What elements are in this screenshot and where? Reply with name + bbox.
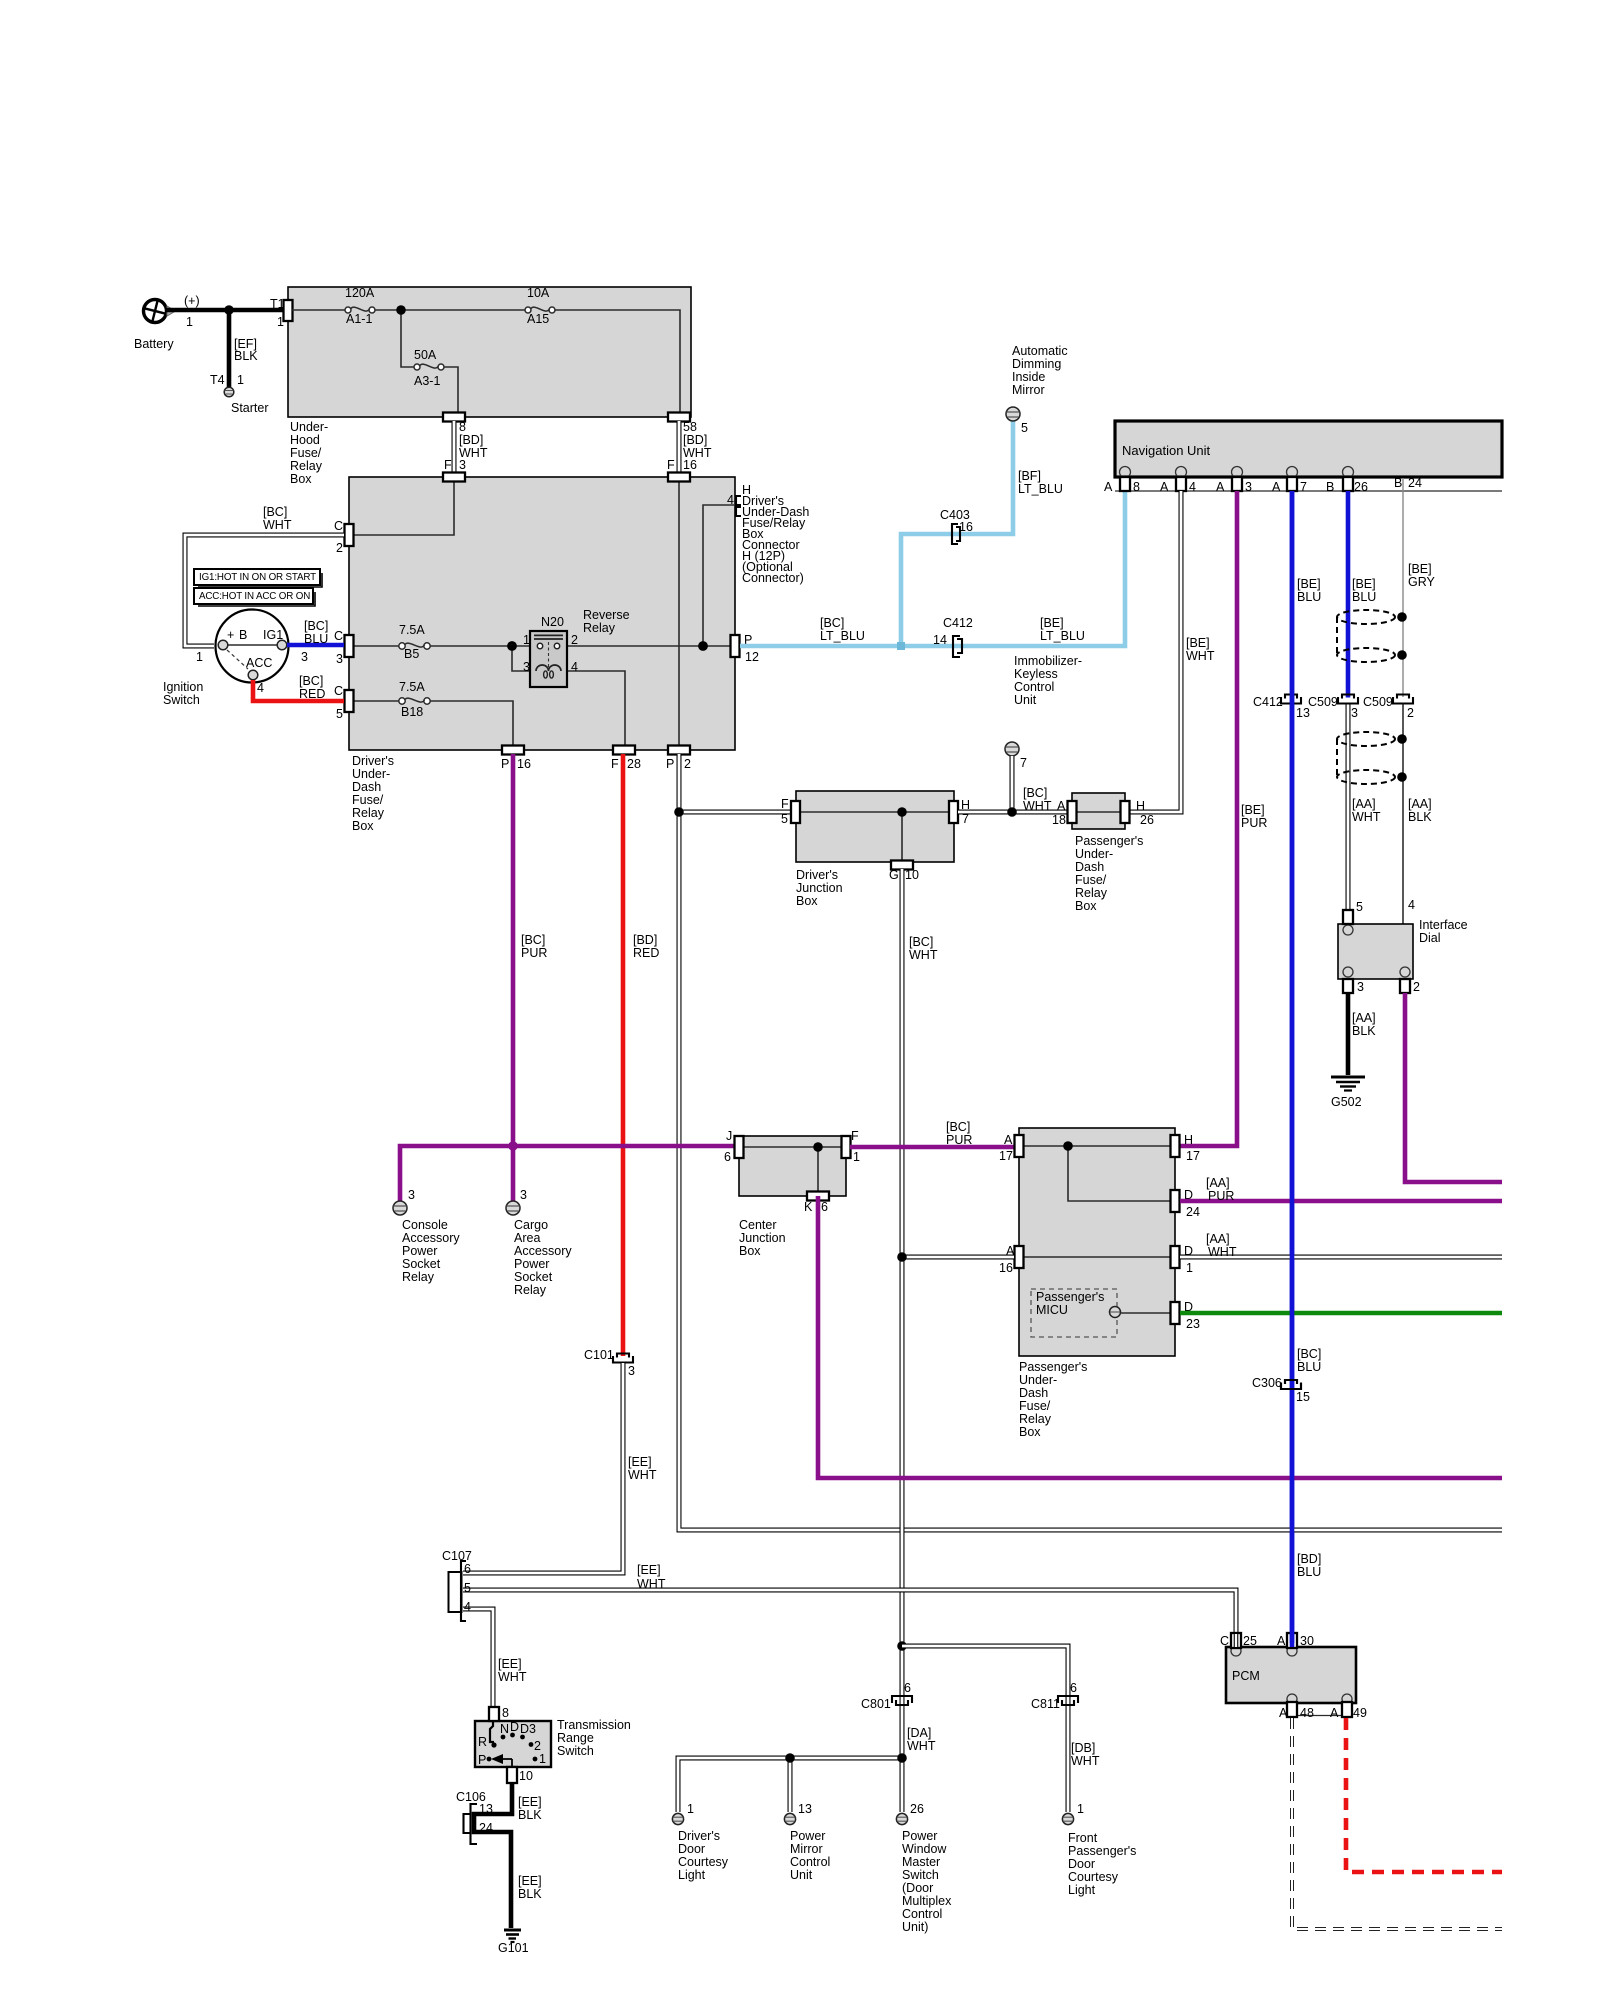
svg-text:Window: Window bbox=[902, 1842, 947, 1856]
svg-text:ACC: ACC bbox=[246, 656, 272, 670]
svg-text:Socket: Socket bbox=[514, 1270, 553, 1284]
svg-text:RED: RED bbox=[633, 946, 659, 960]
svg-text:4: 4 bbox=[1189, 480, 1196, 494]
transmission range switch bbox=[475, 1718, 631, 1767]
wire A16 white bbox=[902, 1255, 1014, 1260]
node mirror branch bbox=[785, 1753, 795, 1763]
svg-text:J: J bbox=[726, 1129, 732, 1143]
wire BC RED ignition to C5 bbox=[253, 680, 344, 701]
svg-text:120A: 120A bbox=[345, 286, 375, 300]
svg-text:26: 26 bbox=[1354, 480, 1368, 494]
svg-text:A1-1: A1-1 bbox=[346, 312, 372, 326]
svg-text:4: 4 bbox=[571, 660, 578, 674]
svg-text:6: 6 bbox=[724, 1150, 731, 1164]
svg-text:Courtesy: Courtesy bbox=[1068, 1870, 1119, 1884]
fuse A15 10A bbox=[525, 286, 555, 326]
svg-text:R: R bbox=[478, 1735, 487, 1749]
dial terminal 3 bbox=[1343, 979, 1353, 993]
terminal J6 bbox=[735, 1136, 744, 1158]
wire F1 to A17 purple bbox=[850, 1145, 1019, 1150]
svg-text:B5: B5 bbox=[404, 647, 419, 661]
svg-text:P: P bbox=[666, 757, 674, 771]
svg-text:A: A bbox=[1057, 799, 1066, 813]
wire to starter bbox=[227, 310, 232, 387]
svg-text:[BC]: [BC] bbox=[304, 619, 328, 633]
svg-text:B: B bbox=[1326, 480, 1334, 494]
svg-text:Box: Box bbox=[352, 819, 374, 833]
terminal C2 bbox=[345, 524, 354, 546]
svg-text:F: F bbox=[667, 458, 675, 472]
terminal C5 bbox=[345, 690, 354, 712]
svg-text:BLU: BLU bbox=[1352, 590, 1376, 604]
svg-text:F: F bbox=[851, 1129, 859, 1143]
svg-text:BLK: BLK bbox=[518, 1808, 542, 1822]
dial terminal 5 bbox=[1343, 910, 1353, 924]
connector C306 15 bbox=[1252, 1376, 1310, 1404]
svg-text:BLK: BLK bbox=[234, 349, 258, 363]
terminal C3 bbox=[345, 635, 354, 657]
svg-text:A: A bbox=[1004, 1133, 1013, 1147]
svg-text:IG1:HOT IN ON OR START: IG1:HOT IN ON OR START bbox=[199, 572, 316, 583]
svg-text:Ignition: Ignition bbox=[163, 680, 203, 694]
svg-text:48: 48 bbox=[1300, 1706, 1314, 1720]
svg-text:2: 2 bbox=[534, 1739, 541, 1753]
svg-text:Master: Master bbox=[902, 1855, 940, 1869]
label connector H text bbox=[742, 483, 809, 585]
svg-text:18: 18 bbox=[1052, 813, 1066, 827]
svg-text:Socket: Socket bbox=[402, 1257, 441, 1271]
wire 58 to F16 BD WHT bbox=[677, 421, 682, 473]
connector C403 16 bbox=[940, 508, 973, 544]
svg-text:[BE]: [BE] bbox=[1408, 562, 1432, 576]
svg-text:[DA]: [DA] bbox=[907, 1726, 931, 1740]
terminal P16 bbox=[502, 746, 524, 755]
svg-text:26: 26 bbox=[1140, 813, 1154, 827]
terminal D24 bbox=[1171, 1190, 1180, 1212]
svg-text:Fuse/: Fuse/ bbox=[1075, 873, 1107, 887]
svg-text:[BD]: [BD] bbox=[1297, 1552, 1321, 1566]
svg-text:[BE]: [BE] bbox=[1241, 803, 1265, 817]
svg-text:Relay: Relay bbox=[290, 459, 323, 473]
wire P2 white down and right bbox=[679, 754, 1502, 1530]
svg-text:23: 23 bbox=[1186, 1317, 1200, 1331]
terminal F3 bbox=[443, 473, 465, 482]
svg-text:Door: Door bbox=[1068, 1857, 1095, 1871]
nav terminal B26 bbox=[1343, 477, 1353, 491]
power mirror control unit pin bbox=[784, 1802, 830, 1882]
terminal H17 bbox=[1171, 1135, 1180, 1157]
terminal PCM A49 bbox=[1342, 1702, 1352, 1717]
svg-text:[BC]: [BC] bbox=[946, 1120, 970, 1134]
svg-text:F: F bbox=[444, 458, 452, 472]
wire BC LT_BLU from P12 bbox=[740, 491, 1125, 646]
svg-text:Junction: Junction bbox=[739, 1231, 786, 1245]
svg-text:[EE]: [EE] bbox=[498, 1657, 522, 1671]
svg-text:D3: D3 bbox=[520, 1722, 536, 1736]
svg-text:LT_BLU: LT_BLU bbox=[820, 629, 865, 643]
node lt blue junction bbox=[897, 642, 905, 650]
svg-text:[BE]: [BE] bbox=[1352, 577, 1376, 591]
connector C412 14 bbox=[933, 616, 973, 657]
terminal A16 bbox=[1015, 1246, 1024, 1268]
terminal TRS 10 bbox=[507, 1767, 517, 1783]
svg-text:C801: C801 bbox=[861, 1697, 891, 1711]
svg-text:1: 1 bbox=[1186, 1261, 1193, 1275]
connector C106 bbox=[456, 1790, 493, 1844]
svg-text:6: 6 bbox=[464, 1562, 471, 1576]
svg-text:Unit: Unit bbox=[1014, 693, 1037, 707]
terminal P12 bbox=[731, 635, 740, 657]
wire dial pin2 purple right bbox=[1405, 993, 1502, 1182]
svg-text:C: C bbox=[334, 629, 343, 643]
wire BE BLU B26 bbox=[1346, 491, 1351, 698]
svg-text:[BC]: [BC] bbox=[909, 935, 933, 949]
svg-text:C811: C811 bbox=[1031, 1697, 1060, 1711]
dial terminal 2 bbox=[1400, 979, 1410, 993]
svg-text:3: 3 bbox=[1357, 980, 1364, 994]
svg-text:BLU: BLU bbox=[304, 632, 328, 646]
PCM box bbox=[1226, 1647, 1356, 1703]
svg-text:G: G bbox=[889, 868, 899, 882]
svg-text:GRY: GRY bbox=[1408, 575, 1436, 589]
svg-text:C412: C412 bbox=[943, 616, 973, 630]
svg-text:24: 24 bbox=[1408, 476, 1422, 490]
svg-text:2: 2 bbox=[571, 633, 578, 647]
svg-text:Power: Power bbox=[790, 1829, 825, 1843]
svg-text:B18: B18 bbox=[401, 705, 423, 719]
svg-text:Switch: Switch bbox=[902, 1868, 939, 1882]
svg-text:G101: G101 bbox=[498, 1941, 529, 1955]
svg-text:58: 58 bbox=[683, 420, 697, 434]
svg-text:BLK: BLK bbox=[518, 1887, 542, 1901]
connector C509 3 bbox=[1308, 695, 1358, 721]
svg-text:Control: Control bbox=[790, 1855, 830, 1869]
svg-text:B: B bbox=[1394, 476, 1402, 490]
terminal A18 bbox=[1068, 801, 1077, 823]
svg-text:2: 2 bbox=[684, 757, 691, 771]
svg-text:[AA]: [AA] bbox=[1352, 797, 1376, 811]
wire G10 white down bbox=[900, 869, 905, 1758]
svg-text:Relay: Relay bbox=[583, 621, 616, 635]
terminal 8 under-hood bbox=[443, 413, 465, 422]
svg-text:WHT: WHT bbox=[1023, 799, 1052, 813]
svg-text:Connector): Connector) bbox=[742, 571, 804, 585]
nav terminal A3 bbox=[1232, 477, 1242, 491]
wire EE WHT C101 down to C107 bbox=[463, 1363, 623, 1573]
svg-text:4: 4 bbox=[257, 681, 264, 695]
connector C811 6 bbox=[1031, 1681, 1078, 1711]
wire dashed white A48 bbox=[1292, 1718, 1502, 1929]
svg-text:[BC]: [BC] bbox=[1297, 1347, 1321, 1361]
svg-text:Fuse/: Fuse/ bbox=[352, 793, 384, 807]
svg-text:Switch: Switch bbox=[557, 1744, 594, 1758]
wire pin7 drop bbox=[1010, 756, 1015, 812]
svg-text:WHT: WHT bbox=[628, 1468, 657, 1482]
connector C412 13 bbox=[1253, 695, 1310, 721]
svg-text:Junction: Junction bbox=[796, 881, 843, 895]
terminal PCM A48 bbox=[1287, 1702, 1297, 1717]
svg-text:1: 1 bbox=[853, 1150, 860, 1164]
fuse B18 7.5A bbox=[399, 680, 430, 719]
svg-text:C306: C306 bbox=[1252, 1376, 1282, 1390]
ground G101 bbox=[498, 1930, 529, 1955]
wire courtesy horizontal bbox=[678, 1758, 902, 1812]
svg-text:8: 8 bbox=[502, 1706, 509, 1720]
terminal D23 bbox=[1171, 1302, 1180, 1324]
wire BE BLU A7 down to PCM bbox=[1290, 491, 1295, 1643]
svg-text:1: 1 bbox=[523, 633, 530, 647]
fuse A1-1 120A bbox=[345, 286, 375, 326]
svg-text:Relay: Relay bbox=[1075, 886, 1108, 900]
svg-text:16: 16 bbox=[959, 520, 973, 534]
driver's junction box bbox=[796, 791, 954, 862]
svg-text:5: 5 bbox=[1356, 900, 1363, 914]
svg-text:Passenger's: Passenger's bbox=[1036, 1290, 1104, 1304]
fuse A3-1 50A bbox=[414, 348, 444, 388]
svg-text:Passenger's: Passenger's bbox=[1068, 1844, 1136, 1858]
svg-text:4: 4 bbox=[727, 493, 734, 507]
svg-text:4: 4 bbox=[1408, 898, 1415, 912]
svg-text:10: 10 bbox=[905, 868, 919, 882]
pin 7 stub bbox=[1005, 742, 1027, 770]
svg-text:Interface: Interface bbox=[1419, 918, 1468, 932]
svg-text:(Door: (Door bbox=[902, 1881, 933, 1895]
svg-text:C101: C101 bbox=[584, 1348, 614, 1362]
svg-text:K: K bbox=[804, 1200, 813, 1214]
connector C107 bbox=[442, 1549, 472, 1621]
battery bbox=[134, 294, 200, 351]
console accessory power socket relay pin bbox=[393, 1188, 460, 1284]
svg-text:Starter: Starter bbox=[231, 401, 269, 415]
wire AA BLK below C509 bbox=[1402, 703, 1404, 924]
svg-text:[EE]: [EE] bbox=[518, 1795, 542, 1809]
svg-text:50A: 50A bbox=[414, 348, 437, 362]
svg-text:Control: Control bbox=[1014, 680, 1054, 694]
node purple junction bbox=[508, 1141, 518, 1151]
svg-text:Immobilizer-: Immobilizer- bbox=[1014, 654, 1082, 668]
svg-text:1: 1 bbox=[539, 1752, 546, 1766]
svg-text:Fuse/: Fuse/ bbox=[1019, 1399, 1051, 1413]
svg-text:16: 16 bbox=[517, 757, 531, 771]
svg-text:WHT: WHT bbox=[907, 1739, 936, 1753]
svg-text:T4: T4 bbox=[210, 373, 225, 387]
junction node bbox=[507, 641, 517, 651]
svg-text:Relay: Relay bbox=[352, 806, 385, 820]
terminal H7 bbox=[949, 801, 958, 823]
relay N20 reverse relay bbox=[523, 608, 630, 687]
terminal P2 bbox=[668, 746, 690, 755]
svg-text:6: 6 bbox=[1070, 1681, 1077, 1695]
svg-text:A: A bbox=[1277, 1634, 1286, 1648]
wire EE WHT C107-5 to PCM C25 bbox=[463, 1590, 1236, 1641]
svg-text:5: 5 bbox=[1021, 421, 1028, 435]
svg-text:[EE]: [EE] bbox=[628, 1455, 652, 1469]
passenger's under-dash box upper bbox=[1072, 793, 1125, 829]
svg-text:WHT: WHT bbox=[498, 1670, 527, 1684]
svg-text:Box: Box bbox=[290, 472, 312, 486]
svg-text:3: 3 bbox=[459, 458, 466, 472]
svg-text:A15: A15 bbox=[527, 312, 549, 326]
note box IG1 bbox=[194, 569, 322, 587]
svg-text:3: 3 bbox=[523, 660, 530, 674]
svg-text:[BC]: [BC] bbox=[521, 933, 545, 947]
svg-text:A3-1: A3-1 bbox=[414, 374, 440, 388]
driver's door courtesy light pin bbox=[672, 1802, 728, 1882]
wire BC BLU ignition to C3 bbox=[287, 643, 344, 648]
wire F5 branch bbox=[679, 810, 792, 815]
wire battery to T1 bbox=[166, 308, 288, 313]
svg-text:Accessory: Accessory bbox=[514, 1244, 572, 1258]
terminal PCM C25 bbox=[1231, 1633, 1241, 1648]
svg-text:12: 12 bbox=[745, 650, 759, 664]
svg-text:13: 13 bbox=[479, 1802, 493, 1816]
wire AA WHT D1 right bbox=[1180, 1255, 1502, 1260]
svg-text:10A: 10A bbox=[527, 286, 550, 300]
svg-text:13: 13 bbox=[798, 1802, 812, 1816]
svg-text:Light: Light bbox=[1068, 1883, 1096, 1897]
svg-text:Passenger's: Passenger's bbox=[1075, 834, 1143, 848]
wire GRN D23 right bbox=[1180, 1311, 1502, 1316]
svg-text:Mirror: Mirror bbox=[1012, 383, 1045, 397]
svg-text:Driver's: Driver's bbox=[678, 1829, 720, 1843]
svg-text:Power: Power bbox=[402, 1244, 437, 1258]
svg-text:5: 5 bbox=[464, 1581, 471, 1595]
wire BC WHT ignition loop bbox=[185, 535, 344, 646]
svg-text:[AA]: [AA] bbox=[1408, 797, 1432, 811]
svg-text:Relay: Relay bbox=[1019, 1412, 1052, 1426]
svg-text:Box: Box bbox=[739, 1244, 761, 1258]
svg-text:17: 17 bbox=[999, 1149, 1013, 1163]
svg-text:WHT: WHT bbox=[909, 948, 938, 962]
svg-text:1: 1 bbox=[277, 315, 284, 329]
wire to C811 bbox=[902, 1646, 1068, 1812]
terminal T1 bbox=[284, 300, 293, 321]
wire 8 to F3 BD WHT bbox=[452, 421, 457, 473]
svg-text:Box: Box bbox=[1019, 1425, 1041, 1439]
svg-text:PUR: PUR bbox=[1241, 816, 1267, 830]
svg-text:2: 2 bbox=[1413, 980, 1420, 994]
power window master switch pin bbox=[896, 1802, 952, 1934]
svg-text:Front: Front bbox=[1068, 1831, 1098, 1845]
svg-text:Power: Power bbox=[514, 1257, 549, 1271]
wire EE WHT C107-4 to TRS pin 8 bbox=[463, 1609, 493, 1707]
shield 2 bbox=[1337, 732, 1407, 784]
svg-text:[BF]: [BF] bbox=[1018, 469, 1041, 483]
svg-text:Accessory: Accessory bbox=[402, 1231, 460, 1245]
wire F28 red down bbox=[621, 754, 626, 1356]
svg-text:C412: C412 bbox=[1253, 695, 1283, 709]
svg-text:1: 1 bbox=[196, 650, 203, 664]
svg-text:25: 25 bbox=[1243, 1634, 1257, 1648]
wire H7 to A18 bbox=[958, 810, 1072, 815]
wire inside passenger upper box bbox=[1073, 811, 1124, 813]
label EF BLK bbox=[234, 337, 258, 363]
svg-text:[BC]: [BC] bbox=[299, 674, 323, 688]
svg-text:Dash: Dash bbox=[1075, 860, 1104, 874]
svg-text:26: 26 bbox=[910, 1802, 924, 1816]
wire AA WHT below C509 bbox=[1346, 705, 1351, 911]
svg-text:Mirror: Mirror bbox=[790, 1842, 823, 1856]
connector C801 6 bbox=[861, 1681, 912, 1711]
svg-text:Relay: Relay bbox=[402, 1270, 435, 1284]
svg-text:Box: Box bbox=[1075, 899, 1097, 913]
svg-text:2: 2 bbox=[336, 541, 343, 555]
junction node bbox=[396, 305, 406, 315]
terminal G10 bbox=[891, 861, 913, 870]
svg-text:[BE]: [BE] bbox=[1297, 577, 1321, 591]
svg-text:3: 3 bbox=[628, 1364, 635, 1378]
svg-text:A: A bbox=[1330, 1706, 1339, 1720]
svg-text:Driver's: Driver's bbox=[796, 868, 838, 882]
svg-text:PUR: PUR bbox=[1208, 1189, 1234, 1203]
svg-text:Courtesy: Courtesy bbox=[678, 1855, 729, 1869]
terminal K6 bbox=[807, 1192, 829, 1201]
svg-text:1: 1 bbox=[1077, 1802, 1084, 1816]
svg-text:A: A bbox=[1279, 1706, 1288, 1720]
svg-text:WHT: WHT bbox=[1208, 1245, 1237, 1259]
svg-text:N20: N20 bbox=[541, 615, 564, 629]
svg-text:[BC]: [BC] bbox=[263, 505, 287, 519]
svg-text:PUR: PUR bbox=[946, 1133, 972, 1147]
automatic dimming inside mirror pin 5 bbox=[1006, 344, 1068, 435]
svg-text:IG1: IG1 bbox=[263, 628, 283, 642]
ground G502 bbox=[1331, 1077, 1365, 1109]
svg-text:Navigation Unit: Navigation Unit bbox=[1122, 443, 1211, 458]
cargo area accessory power socket relay pin bbox=[506, 1188, 572, 1297]
svg-text:Box: Box bbox=[796, 894, 818, 908]
shield 1 bbox=[1337, 610, 1407, 662]
nav terminal A7 bbox=[1287, 477, 1297, 491]
svg-text:7.5A: 7.5A bbox=[399, 680, 425, 694]
svg-text:BLK: BLK bbox=[1408, 810, 1432, 824]
svg-text:Dimming: Dimming bbox=[1012, 357, 1061, 371]
nav pin circles bbox=[1120, 467, 1131, 478]
svg-text:WHT: WHT bbox=[637, 1577, 666, 1591]
svg-text:C: C bbox=[334, 519, 343, 533]
svg-text:17: 17 bbox=[1186, 1149, 1200, 1163]
svg-text:Console: Console bbox=[402, 1218, 448, 1232]
wire AA BLK dial to G502 bbox=[1346, 993, 1351, 1075]
svg-text:3: 3 bbox=[408, 1188, 415, 1202]
svg-text:PCM: PCM bbox=[1232, 1669, 1260, 1683]
svg-text:Cargo: Cargo bbox=[514, 1218, 548, 1232]
svg-text:3: 3 bbox=[520, 1188, 527, 1202]
svg-text:ACC:HOT IN ACC OR ON: ACC:HOT IN ACC OR ON bbox=[199, 591, 310, 602]
svg-text:H: H bbox=[1184, 1133, 1193, 1147]
wire BE GRY B24 bbox=[1402, 478, 1404, 697]
svg-text:WHT: WHT bbox=[263, 518, 292, 532]
svg-text:Unit): Unit) bbox=[902, 1920, 928, 1934]
svg-text:C: C bbox=[1220, 1634, 1229, 1648]
svg-text:Under-: Under- bbox=[352, 767, 390, 781]
svg-text:4: 4 bbox=[464, 1600, 471, 1614]
terminal F1 bbox=[842, 1136, 851, 1158]
wire K6 purple down right bbox=[818, 1196, 1502, 1478]
svg-text:C509: C509 bbox=[1363, 695, 1393, 709]
svg-text:5: 5 bbox=[781, 812, 788, 826]
svg-text:[BC]: [BC] bbox=[1023, 786, 1047, 800]
nav terminal A8 bbox=[1120, 477, 1130, 491]
svg-text:BLU: BLU bbox=[1297, 590, 1321, 604]
node DJB junction bbox=[897, 807, 907, 817]
fuse B5 7.5A bbox=[399, 623, 430, 661]
svg-text:1: 1 bbox=[186, 315, 193, 329]
svg-text:[BC]: [BC] bbox=[820, 616, 844, 630]
svg-text:7: 7 bbox=[1300, 480, 1307, 494]
svg-text:49: 49 bbox=[1353, 1706, 1367, 1720]
wire BE WHT A4 to H26 bbox=[1129, 491, 1181, 812]
terminal PCM A30 bbox=[1287, 1633, 1297, 1648]
